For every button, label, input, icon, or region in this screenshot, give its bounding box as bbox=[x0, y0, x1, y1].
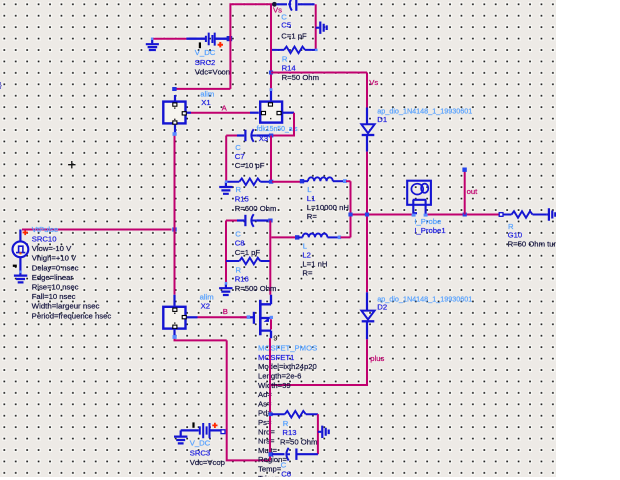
svg-text:ap_dio_1N4148_1_19930601: ap_dio_1N4148_1_19930601 bbox=[377, 106, 472, 115]
svg-text:R: R bbox=[282, 55, 288, 64]
svg-text:Width=largeur nsec: Width=largeur nsec bbox=[32, 302, 100, 311]
ground SRC3 bbox=[174, 430, 187, 443]
wire SRC2 left bbox=[152, 38, 186, 40]
svg-text:L=10000 nH: L=10000 nH bbox=[307, 203, 349, 212]
svg-text:R=50 Ohm: R=50 Ohm bbox=[282, 73, 319, 82]
svg-text:Model=ixth24p20: Model=ixth24p20 bbox=[258, 362, 317, 371]
resistor R14 bbox=[271, 47, 318, 54]
svg-text:SRC2: SRC2 bbox=[195, 58, 216, 67]
svg-text:R: R bbox=[236, 185, 242, 194]
svg-text:C=1 pF: C=1 pF bbox=[235, 248, 261, 257]
junction out bbox=[463, 213, 467, 217]
svg-text:9: 9 bbox=[273, 334, 277, 343]
capacitor C5 bbox=[277, 0, 315, 11]
svg-text:L: L bbox=[303, 242, 308, 251]
ground (top-left, at SRC2) bbox=[146, 39, 159, 50]
dc source SRC3 battery bbox=[181, 422, 225, 438]
svg-text:C5: C5 bbox=[281, 20, 291, 29]
wire PMOS drain down bbox=[269, 338, 271, 460]
junction C6 bbox=[269, 452, 274, 456]
wire C8 left vertical bbox=[225, 221, 227, 285]
svg-text:MOSFET1: MOSFET1 bbox=[258, 353, 294, 362]
wire X3 right wrap-around bbox=[283, 112, 294, 114]
svg-text:R16: R16 bbox=[235, 275, 249, 284]
ground G10 right bbox=[546, 208, 555, 220]
transistor MOSFET1 PMOS bbox=[240, 295, 273, 338]
svg-text:G10: G10 bbox=[508, 231, 523, 240]
wire X1 bottom to X2 top bbox=[174, 134, 176, 295]
diode D1 bbox=[361, 73, 374, 215]
svg-text:B: B bbox=[223, 307, 228, 316]
svg-text:plus: plus bbox=[370, 354, 384, 363]
capacitor C7 bbox=[226, 129, 269, 142]
svg-text:Vs: Vs bbox=[369, 78, 378, 87]
resistor G10 bbox=[499, 211, 546, 218]
svg-text:R: R bbox=[283, 419, 289, 428]
svg-text:D2: D2 bbox=[377, 303, 387, 312]
svg-text:X1: X1 bbox=[201, 98, 210, 107]
wire C5 right down bbox=[315, 4, 317, 50]
svg-text:Length=2e-6: Length=2e-6 bbox=[258, 372, 301, 381]
junction C7 right bbox=[269, 134, 273, 138]
resistor R16 bbox=[226, 258, 270, 265]
wire C7 left vertical bbox=[225, 136, 227, 182]
wire to X1 top bbox=[175, 88, 231, 90]
svg-text:ap_dio_1N4148_1_19930601: ap_dio_1N4148_1_19930601 bbox=[377, 295, 472, 304]
wire battery node up and across top bbox=[230, 4, 273, 89]
svg-text:Edge=linear: Edge=linear bbox=[32, 273, 74, 282]
svg-text:Nrs=: Nrs= bbox=[258, 437, 275, 446]
node Vs junction dot bbox=[272, 2, 277, 7]
svg-text:alim: alim bbox=[200, 293, 214, 302]
svg-text:I_Probe1: I_Probe1 bbox=[414, 226, 445, 235]
ground R15 left bbox=[225, 182, 227, 187]
capacitor C6 bbox=[272, 448, 318, 461]
wire X2 bottom to SRC3 column bbox=[175, 338, 271, 461]
svg-text:C: C bbox=[235, 143, 241, 152]
white margins bbox=[556, 0, 620, 480]
diode D2 bbox=[270, 215, 375, 386]
junction R13 bbox=[269, 412, 273, 416]
junction SRC10 column bbox=[172, 227, 176, 231]
svg-text:Fall=10 nsec: Fall=10 nsec bbox=[32, 292, 76, 301]
wire main output bbox=[351, 214, 500, 216]
inductor L1 bbox=[272, 177, 351, 214]
svg-text:Vlow=-10 V: Vlow=-10 V bbox=[32, 244, 72, 253]
junction L1/L2 bbox=[348, 213, 352, 217]
svg-text:R=600 Ohm: R=600 Ohm bbox=[235, 204, 277, 213]
svg-text:Vdc=Vcop: Vdc=Vcop bbox=[190, 458, 225, 467]
svg-text:fdk15n50_als: fdk15n50_als bbox=[257, 124, 298, 133]
wire Vs vertical bbox=[270, 4, 272, 89]
svg-text:Period=frequence nsec: Period=frequence nsec bbox=[32, 311, 112, 320]
svg-text:out: out bbox=[467, 187, 479, 196]
ground SRC10 bbox=[14, 276, 27, 283]
svg-text:R=: R= bbox=[307, 212, 318, 221]
junction diode column bbox=[365, 213, 369, 217]
svg-text:Delay=0 nsec: Delay=0 nsec bbox=[32, 263, 79, 272]
ground R13 right bbox=[318, 426, 329, 438]
svg-text:R=50 Ohm: R=50 Ohm bbox=[280, 438, 317, 447]
svg-text:C: C bbox=[281, 461, 287, 470]
svg-text:C: C bbox=[235, 230, 241, 239]
svg-text:L=1 nH: L=1 nH bbox=[302, 260, 327, 269]
subcircuit X3 fdk15n50_als bbox=[260, 102, 282, 123]
svg-text:A: A bbox=[222, 104, 228, 113]
capacitor C8 bbox=[226, 214, 268, 227]
svg-text:Temp=: Temp= bbox=[258, 465, 282, 474]
dc source SRC2 battery bbox=[186, 33, 232, 49]
svg-text:Vhigh=+10 V: Vhigh=+10 V bbox=[32, 254, 77, 263]
pulse source SRC10 bbox=[13, 230, 29, 276]
svg-text:V_DC: V_DC bbox=[190, 439, 211, 448]
wire out stub bbox=[464, 170, 466, 215]
resistor R15 bbox=[226, 178, 270, 185]
junction C8 right bbox=[268, 219, 272, 223]
origin crosshair marker bbox=[68, 161, 75, 168]
svg-text:R14: R14 bbox=[282, 64, 297, 73]
svg-text:R=500 Ohm: R=500 Ohm bbox=[235, 284, 277, 293]
svg-text:L2: L2 bbox=[302, 251, 311, 260]
svg-text:Rise=10 nsec: Rise=10 nsec bbox=[32, 283, 79, 292]
junction Vs to D1 bbox=[269, 71, 273, 75]
resistor R13 bbox=[272, 411, 318, 418]
svg-text:R=50 Ohm tun: R=50 Ohm tun bbox=[508, 240, 558, 249]
svg-text:X2: X2 bbox=[201, 302, 210, 311]
junction R15 right bbox=[269, 180, 273, 184]
svg-text:R13: R13 bbox=[282, 428, 296, 437]
wire to D1 bbox=[271, 72, 367, 74]
svg-text:Vdc=Vcon: Vdc=Vcon bbox=[195, 68, 230, 77]
subcircuit X1 alim bbox=[163, 95, 186, 134]
current probe I_Probe1 bbox=[407, 181, 431, 217]
svg-text:L: L bbox=[307, 185, 312, 194]
wire SRC10 to X1/X2 column bbox=[22, 229, 172, 231]
ground C8/R16 left bbox=[225, 284, 227, 289]
wire C7 right vertical bbox=[270, 136, 272, 182]
svg-text:Nrd=: Nrd= bbox=[258, 427, 275, 436]
svg-text:I_Probe: I_Probe bbox=[414, 217, 441, 226]
wire C8 right vertical down to PMOS bbox=[269, 221, 271, 295]
svg-text:C7: C7 bbox=[235, 152, 245, 161]
wire B bbox=[187, 316, 198, 318]
ground (top right) bbox=[316, 22, 327, 34]
svg-text:D1: D1 bbox=[377, 115, 387, 124]
inductor L2 bbox=[271, 215, 350, 240]
svg-text:SRC3: SRC3 bbox=[190, 448, 211, 457]
svg-text:SRC10: SRC10 bbox=[32, 235, 57, 244]
svg-text:R=: R= bbox=[302, 269, 313, 278]
svg-text:Width=39: Width=39 bbox=[258, 381, 291, 390]
subcircuit X2 alim bbox=[163, 307, 186, 337]
svg-text:R: R bbox=[236, 265, 242, 274]
svg-text:C=10 pF: C=10 pF bbox=[235, 161, 265, 170]
svg-text:VtPulse: VtPulse bbox=[32, 225, 59, 234]
svg-text:MOSFET_PMOS: MOSFET_PMOS bbox=[258, 344, 317, 353]
junction X1 top bbox=[172, 87, 176, 91]
wire R13 right down bbox=[317, 414, 319, 454]
svg-text:R15: R15 bbox=[235, 195, 249, 204]
svg-text:L1: L1 bbox=[307, 194, 316, 203]
wire A bbox=[187, 112, 191, 114]
svg-text:C8: C8 bbox=[235, 239, 245, 248]
svg-text:C=1 pF: C=1 pF bbox=[281, 32, 307, 41]
svg-text:V_DC: V_DC bbox=[195, 48, 216, 57]
